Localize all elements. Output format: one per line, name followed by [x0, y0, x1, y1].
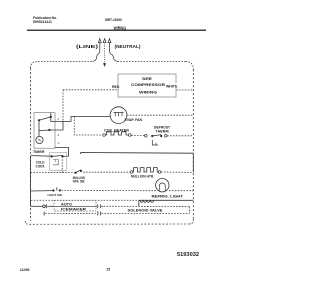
svg-text:15: 15	[106, 267, 111, 272]
label ICEMAKER	[61, 207, 88, 211]
evap fan motor M1	[110, 107, 127, 124]
wire icemaker row 1 left	[31, 205, 43, 207]
label AUTO	[61, 202, 75, 207]
timer contact 2	[50, 116, 52, 118]
defrost timer box	[34, 113, 60, 149]
plug prong L1 (line)	[93, 39, 102, 62]
svg-text:5995211411: 5995211411	[33, 20, 52, 24]
wire evap fan row	[55, 117, 110, 122]
svg-text:5193032: 5193032	[177, 252, 199, 258]
svg-text:EVAP. FAN: EVAP. FAN	[125, 118, 143, 122]
wire white to right rail	[176, 89, 193, 91]
wire vertical from compressor row to timer (dashed)	[62, 90, 64, 122]
label WHITE	[165, 83, 182, 89]
mullion heater switch S2	[75, 170, 83, 174]
cold control box	[49, 153, 66, 171]
svg-text:TIMER: TIMER	[33, 150, 45, 154]
cabinet outline left dashed vertical	[30, 68, 32, 221]
wire water valve feed line (dashed left, solid right)	[31, 199, 193, 201]
wire icemaker row2 to right rail (dashed)	[102, 212, 190, 214]
icemaker row 1 through box	[54, 205, 96, 207]
icemaker connector right pair row1	[96, 204, 103, 208]
cabinet outline bottom-right corner	[190, 220, 194, 225]
timer contact 1	[38, 119, 40, 121]
wire coil heater to defrost thermostat (dashed)	[131, 135, 144, 137]
cabinet outline top-right arc	[186, 62, 194, 70]
wire icemaker row 2 (dashed)	[45, 212, 96, 214]
label DEFROST THERM.	[154, 125, 171, 133]
icemaker connector left pair	[43, 204, 54, 208]
refrigerator light bulb DS1	[156, 179, 169, 192]
mullion heater element R2	[133, 168, 158, 172]
wire main feed right rail (solid)	[81, 153, 194, 173]
auto icemaker box (dashed, optional)	[54, 200, 96, 211]
coil heater left terminal	[103, 134, 106, 137]
cabinet outline bottom-left corner	[25, 221, 27, 224]
wire light row to bulb (dashed)	[62, 190, 156, 192]
cabinet outline right dashed vertical	[192, 69, 194, 220]
svg-text:WIRING: WIRING	[139, 89, 157, 94]
label SOLENOID VALVE	[127, 208, 163, 213]
svg-text:ICEMAKER: ICEMAKER	[61, 207, 87, 211]
timer internal wires	[39, 113, 55, 137]
svg-text:HTR. SW.: HTR. SW.	[73, 180, 85, 184]
svg-text:(NEUTRAL): (NEUTRAL)	[115, 44, 142, 49]
wire icemaker row1 to water valve (dashed)	[104, 205, 190, 207]
icemaker connector right pair row2	[97, 212, 100, 216]
coil heater right terminal	[129, 134, 132, 137]
wire mullion heater row right (dashed)	[83, 171, 130, 173]
wire evap fan to right rail (dashed)	[127, 114, 193, 116]
svg-text:SEE: SEE	[142, 76, 152, 81]
svg-text:WHITE: WHITE	[166, 85, 178, 89]
coil heater element R1	[106, 132, 129, 135]
label COLD CONT.	[36, 161, 46, 169]
wire light to right rail (dashed)	[169, 190, 193, 192]
compressor box U1	[118, 74, 176, 97]
svg-text:AUTO: AUTO	[61, 202, 73, 206]
wire mullion heater to right rail (dashed)	[161, 171, 193, 173]
wire cold control feed from left rail	[31, 155, 52, 158]
svg-text:THERM.: THERM.	[156, 129, 170, 133]
mullion heater right terminal	[158, 171, 161, 174]
svg-text:COMPRESSOR: COMPRESSOR	[131, 82, 165, 87]
plug prong ground (dotted, arrow to cabinet)	[103, 39, 106, 67]
timer motor	[36, 136, 43, 143]
plug prong neutral	[108, 39, 117, 62]
mullion heater left terminal	[130, 171, 133, 174]
light door switch	[52, 187, 61, 191]
header rule	[27, 30, 206, 31]
svg-text:REFRIG. LIGHT: REFRIG. LIGHT	[152, 194, 184, 198]
cold control switch S1	[51, 155, 64, 165]
cold control bellows	[53, 160, 59, 165]
cabinet outline top right segment	[118, 61, 186, 63]
wire row A feed to compressor (dashed)	[63, 89, 118, 91]
wire valve row to icemaker row2 link (dashed)	[189, 207, 191, 214]
water solenoid valve coil L2	[139, 200, 154, 206]
svg-text:RED: RED	[112, 85, 120, 89]
cabinet outline bottom dashed line	[28, 223, 190, 225]
wire vertical solid to timer contact 4	[49, 121, 63, 130]
wire drop to coil heater row (dashed)	[74, 117, 102, 136]
label MULLION HTR. SW.	[73, 176, 86, 184]
cabinet outline top-left arc	[31, 62, 39, 69]
timer switch blade	[39, 117, 51, 120]
icemaker row 2 left connector	[43, 212, 46, 216]
svg-text:MULLION HTR.: MULLION HTR.	[131, 174, 154, 178]
svg-text:CONT.: CONT.	[36, 164, 46, 168]
header publication number	[33, 16, 57, 24]
wire cold control drop to mullion row	[61, 156, 63, 172]
svg-text:MRT-16000: MRT-16000	[105, 17, 123, 22]
wire left rail solid (lower section)	[30, 156, 32, 207]
timer contact 4	[48, 129, 50, 131]
svg-text:(LINE): (LINE)	[76, 44, 99, 49]
wire timer to cold control link	[55, 147, 69, 156]
defrost thermostat S3	[145, 135, 168, 146]
wire mullion heater row left (dashed)	[31, 172, 75, 174]
svg-text:LIGHT SW.: LIGHT SW.	[48, 193, 63, 197]
wire defrost thermostat to right rail (dashed)	[167, 135, 193, 137]
wire light row left (solid)	[31, 190, 53, 192]
svg-text:SOLENOID VALVE: SOLENOID VALVE	[128, 208, 163, 212]
cabinet outline top left segment	[38, 61, 93, 63]
defrost thermostat sensing element	[152, 140, 158, 145]
svg-text:11/98: 11/98	[20, 267, 30, 272]
svg-text:WIRING: WIRING	[114, 25, 127, 30]
label RED	[111, 84, 122, 89]
